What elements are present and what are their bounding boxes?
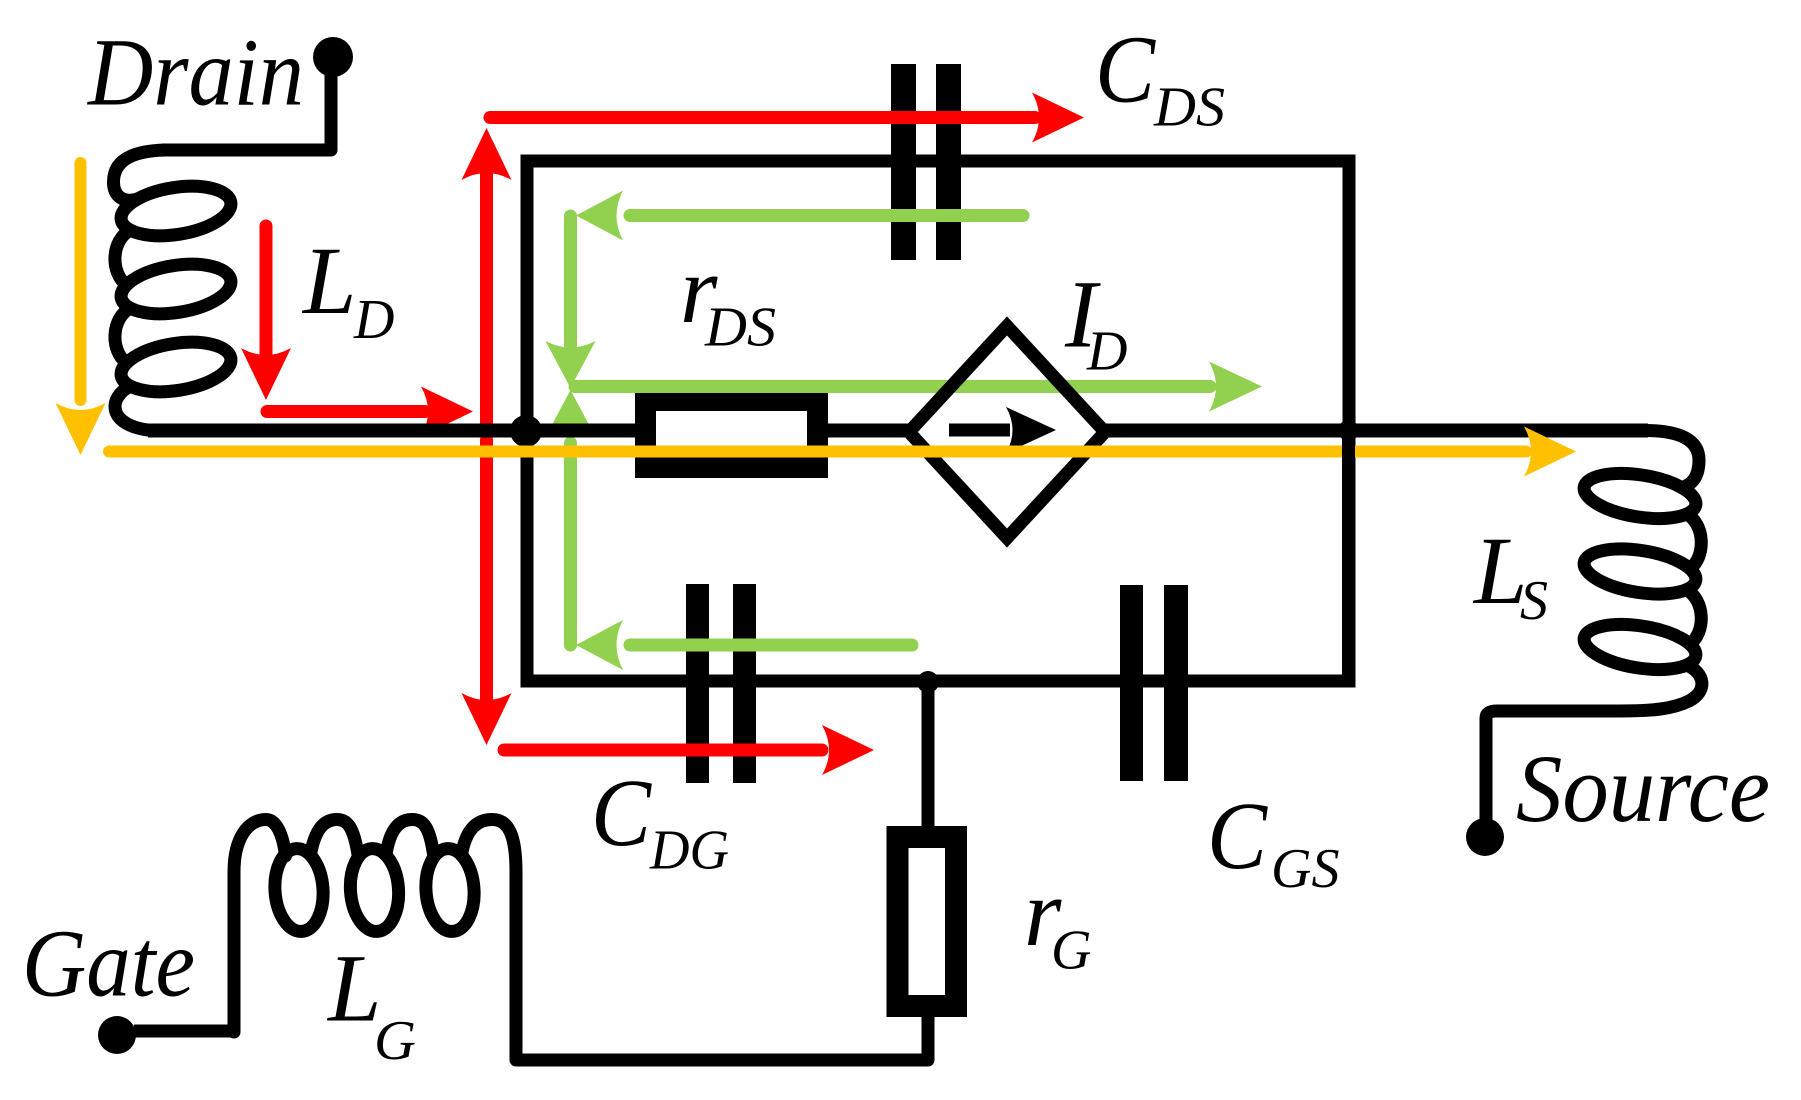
svg-text:D: D [353, 289, 394, 351]
inductor L_G loop 3 [423, 847, 477, 933]
inductor L_S connector 1-2 [1687, 514, 1702, 569]
junction node (intrinsic drain) [510, 415, 542, 447]
inductor L_S exit curve [1486, 665, 1702, 820]
inductor L_G arch 2 [386, 820, 434, 858]
gate terminal dot [98, 1016, 136, 1054]
inductor L_D entry curve [114, 150, 166, 200]
red arrow C_DS (top horizontal) [490, 111, 1035, 124]
current source I_D diamond fill [909, 326, 1105, 538]
svg-text:Gate: Gate [22, 910, 195, 1017]
svg-text:G: G [1051, 920, 1091, 982]
red arrow C_DG (horizontal) [504, 744, 822, 757]
inductor L_S ring 1 [1581, 466, 1699, 525]
inductor L_D ring 2 [118, 257, 235, 321]
inductor L_D connector 1-2 [115, 230, 130, 285]
svg-text:C: C [1095, 16, 1156, 123]
intrinsic FET boundary box [527, 161, 1349, 681]
orange through-path arrow (horizontal) [109, 446, 1526, 458]
wire from C_DG/C_GS node down to r_G [516, 681, 928, 1060]
inductor L_G loop 2 [348, 847, 402, 933]
current source I_D diamond outline [909, 326, 1105, 538]
inductor L_D exit curve [115, 386, 152, 430]
resistor r_DS [646, 401, 818, 468]
inductor L_S ring 3 [1581, 617, 1699, 676]
inductor L_D ring 3 [118, 335, 235, 399]
inductor L_D ring 1 [118, 179, 235, 243]
inductor L_G loop 1 [272, 847, 326, 933]
svg-text:G: G [374, 1010, 416, 1072]
svg-text:DS: DS [1153, 77, 1225, 139]
capacitor C_DS plates [891, 64, 916, 260]
orange input arrow (vertical) [75, 163, 87, 400]
current source inner arrow [949, 424, 1010, 437]
junction node (gate node) [917, 671, 939, 693]
svg-text:S: S [1520, 570, 1548, 632]
capacitor C_DG plates [686, 584, 709, 783]
inductor L_S entry curve [1645, 431, 1699, 488]
source terminal dot [1466, 818, 1504, 856]
inductor L_D connector 2-3 [115, 308, 130, 363]
svg-text:DG: DG [649, 820, 729, 882]
red arrow L_D to node (horizontal) [267, 405, 425, 418]
svg-text:GS: GS [1271, 838, 1339, 900]
red arrow L_D (vertical) [260, 226, 273, 355]
svg-text:DS: DS [704, 297, 776, 359]
box right edge over orange [1342, 424, 1355, 688]
green C_DG feedback arrow (bottom loop) [564, 443, 577, 645]
inductor L_S ring 2 [1581, 542, 1699, 601]
inductor L_G exit arch + right wire [461, 820, 516, 1061]
red double arrow at intrinsic input [480, 170, 493, 424]
inductor L_G arch 1 [310, 820, 358, 858]
inductor L_S connector 2-3 [1687, 590, 1702, 644]
capacitor C_GS plates [1120, 585, 1143, 781]
green I_D arrow [575, 380, 1210, 393]
resistor r_G [898, 837, 957, 1006]
green C_DS feedback arrow (top loop) [630, 209, 1023, 222]
svg-text:Drain: Drain [86, 19, 304, 126]
drain terminal dot [313, 37, 353, 77]
svg-text:C: C [591, 759, 652, 866]
svg-text:C: C [1207, 782, 1268, 889]
drain terminal wire [162, 70, 331, 150]
junction node (intrinsic source) [1338, 420, 1359, 441]
svg-text:L: L [301, 227, 356, 334]
main drain-source wire [148, 424, 1648, 438]
inductor L_G left wire + entry arch [234, 820, 286, 1033]
gate terminal wire [134, 1025, 234, 1038]
svg-text:Source: Source [1516, 735, 1770, 842]
svg-text:D: D [1086, 321, 1127, 383]
